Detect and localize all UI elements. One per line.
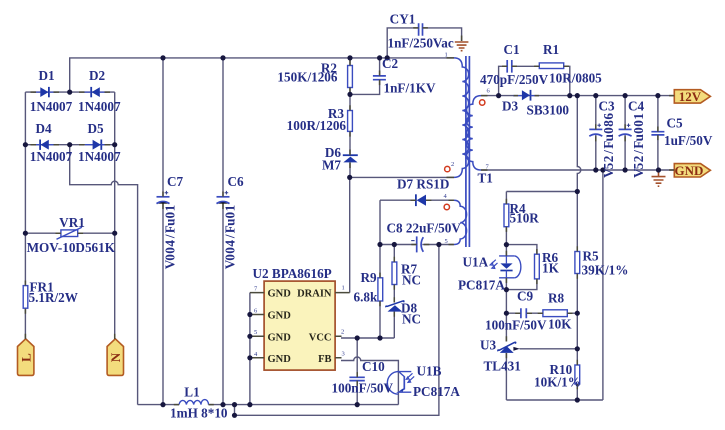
capacitor C4 [619, 124, 632, 137]
node sub-rail junction [232, 413, 237, 418]
fusible resistor FR1 [23, 286, 28, 309]
svg-text:1: 1 [631, 113, 646, 120]
svg-text:100R/1206: 100R/1206 [287, 118, 347, 133]
svg-text:2: 2 [341, 329, 344, 336]
diode D3 [513, 90, 539, 101]
svg-text:/: / [223, 234, 238, 239]
wire bridge right column [114, 92, 116, 145]
svg-text:C10: C10 [362, 359, 385, 374]
svg-text:2: 2 [601, 155, 616, 162]
svg-text:1: 1 [223, 205, 238, 212]
polarity dot primary [445, 166, 450, 171]
capacitor C10 [349, 377, 364, 380]
svg-text:1N4007: 1N4007 [78, 99, 121, 114]
diode D2 [84, 87, 107, 97]
value 10uF/400V (C7) vertical [163, 205, 178, 269]
svg-text:C3: C3 [599, 99, 616, 114]
inductor L1 [179, 400, 208, 405]
svg-text:U1A: U1A [463, 255, 489, 270]
svg-text:TL431: TL431 [484, 359, 521, 374]
svg-text:V: V [223, 259, 238, 269]
svg-text:/: / [631, 150, 646, 155]
diode D6 [343, 155, 358, 162]
svg-text:0: 0 [631, 127, 646, 134]
capacitor C5 [651, 132, 664, 135]
wire R2/C2 bottom junction [350, 58, 380, 95]
svg-text:5: 5 [445, 238, 448, 245]
transformer T1 primary winding [454, 58, 469, 177]
diode D1 [33, 87, 56, 97]
svg-text:1N4007: 1N4007 [78, 149, 121, 164]
svg-text:39K/1%: 39K/1% [582, 263, 629, 278]
capacitor C3 [589, 124, 602, 137]
svg-text:GND: GND [268, 354, 292, 365]
svg-text:D4: D4 [35, 121, 52, 136]
resistor R10 [575, 365, 580, 384]
svg-text:1nF/250Vac: 1nF/250Vac [388, 36, 454, 51]
svg-text:U3: U3 [480, 338, 497, 353]
U2 pin stubs [250, 293, 350, 358]
svg-text:u: u [223, 219, 238, 226]
svg-text:2: 2 [451, 161, 454, 168]
svg-text:C1: C1 [504, 42, 520, 57]
node R2/C2 junction [347, 92, 352, 97]
svg-text:6.8k: 6.8k [354, 290, 378, 305]
wire R2-R3-D6 column [349, 58, 351, 177]
wire C7 column [162, 58, 164, 405]
ground (output earth) [652, 170, 666, 186]
node DRAIN/D6/primary junction [347, 175, 352, 180]
svg-text:T1: T1 [478, 171, 493, 186]
svg-text:u: u [601, 134, 616, 141]
node C8 wire taps [377, 242, 382, 247]
svg-text:PC817A: PC817A [413, 384, 460, 399]
svg-text:F: F [631, 141, 646, 149]
wire N input column to N terminal [114, 145, 116, 341]
wire R5 column with hop over GND rail [577, 96, 581, 400]
wire TL431 ref [520, 348, 578, 350]
svg-text:0: 0 [223, 247, 238, 254]
svg-text:MOV-10D561K: MOV-10D561K [27, 240, 116, 255]
svg-text:PC817A: PC817A [458, 278, 505, 293]
svg-text:D3: D3 [502, 99, 519, 114]
terminal N [107, 339, 123, 376]
svg-text:VR1: VR1 [59, 215, 85, 230]
svg-text:10K/1%: 10K/1% [534, 375, 581, 390]
svg-text:C6: C6 [228, 174, 245, 189]
node GND rail taps [593, 167, 598, 172]
wire feedback bottom [506, 399, 603, 401]
terminal L [18, 339, 34, 376]
wire U2 GND bus [249, 293, 251, 405]
wire VCC net [341, 337, 394, 339]
capacitor C9 [521, 308, 526, 318]
svg-text:FB: FB [318, 354, 331, 365]
node VR1 taps [23, 231, 28, 236]
svg-text:1uF/50V: 1uF/50V [664, 133, 713, 148]
polarity dot secondary [480, 100, 485, 105]
svg-text:N: N [108, 352, 123, 362]
wire R4/U1A/TL431 column [505, 192, 507, 401]
svg-text:u: u [163, 219, 178, 226]
value 100uF/25V (C4) vertical [631, 113, 646, 178]
svg-text:100nF/50V: 100nF/50V [332, 381, 394, 396]
svg-text:100nF/50V: 100nF/50V [485, 318, 547, 333]
node top rail taps [160, 55, 165, 60]
svg-text:2: 2 [631, 155, 646, 162]
svg-text:C7: C7 [167, 174, 184, 189]
svg-text:M7: M7 [322, 158, 341, 173]
svg-text:F: F [223, 225, 238, 233]
svg-text:F: F [601, 141, 616, 149]
terminal GND [674, 163, 710, 178]
svg-text:SB3100: SB3100 [527, 103, 570, 118]
node U2 GND bus taps [247, 312, 252, 317]
svg-text:VCC: VCC [309, 332, 332, 343]
wire B- return: bridge bottom mid, down, right with hop over N column, down to bottom rail [70, 145, 138, 405]
svg-text:12V: 12V [679, 89, 702, 104]
svg-text:C5: C5 [667, 116, 684, 131]
svg-text:8: 8 [601, 120, 616, 127]
wire DRAIN net: column and horizontal to transformer primary bottom [350, 177, 454, 292]
svg-text:10R/0805: 10R/0805 [549, 71, 602, 86]
value 10uF/400V (C6) vertical [223, 205, 238, 269]
wire R9 column [379, 245, 381, 339]
svg-text:V: V [163, 259, 178, 269]
resistor R9 [378, 278, 383, 301]
svg-text:0: 0 [223, 211, 238, 218]
svg-text:D1: D1 [38, 68, 54, 83]
svg-text:C2: C2 [382, 56, 399, 71]
svg-text:510R: 510R [510, 211, 540, 226]
svg-text:1N4007: 1N4007 [30, 99, 73, 114]
wire L input column through FR1 to L terminal [24, 145, 26, 341]
wire bridge top row [25, 91, 114, 93]
svg-text:GND: GND [268, 289, 292, 300]
svg-text:F: F [163, 225, 178, 233]
svg-text:0: 0 [631, 120, 646, 127]
node bottom rail taps [160, 402, 165, 407]
svg-text:3: 3 [342, 351, 345, 358]
resistor R7 [392, 262, 397, 285]
svg-text:/: / [601, 150, 616, 155]
svg-text:0: 0 [601, 127, 616, 134]
svg-text:0: 0 [223, 254, 238, 261]
wire D7 anode column [379, 200, 381, 244]
wire C6 column [222, 58, 224, 405]
resistor R5 [575, 252, 580, 274]
svg-text:5.1R/2W: 5.1R/2W [29, 290, 78, 305]
wire primary GND bottom rail with L1 gap [138, 404, 399, 406]
resistor R3 [348, 111, 353, 132]
wire C4 column [624, 96, 626, 170]
wire bridge bottom row [25, 144, 114, 146]
svg-text:5: 5 [601, 162, 616, 169]
resistor R8 [543, 310, 567, 317]
svg-text:C4: C4 [628, 99, 645, 114]
zener diode D8 [386, 301, 404, 312]
svg-text:1K: 1K [542, 261, 560, 276]
svg-text:0: 0 [163, 254, 178, 261]
terminal 12V [674, 89, 710, 104]
svg-text:CY1: CY1 [390, 12, 416, 27]
svg-text:D5: D5 [87, 121, 104, 136]
pin stubs (dark component leads) [25, 28, 674, 405]
node divider taps [575, 311, 580, 316]
wire snubber loop C1/R1 [499, 66, 570, 95]
svg-text:5: 5 [254, 329, 257, 336]
capacitor C1 [507, 60, 512, 73]
wire C5 column [657, 96, 659, 170]
capacitor CY1 [419, 23, 423, 36]
wire bridge left column [24, 92, 26, 145]
svg-text:1nF/1KV: 1nF/1KV [384, 81, 436, 96]
polarity dot auxiliary [444, 204, 449, 209]
wire R7-D8 column [393, 245, 395, 339]
transformer T1 secondary winding [467, 96, 481, 170]
svg-text:0: 0 [163, 211, 178, 218]
capacitor C8 [411, 236, 423, 252]
node VCC wire taps [355, 335, 360, 340]
wire FB net with hop over C10 [341, 357, 398, 405]
diode D5 [85, 140, 109, 150]
svg-text:R5: R5 [583, 249, 600, 264]
value 680uF/25V (C3) vertical [601, 113, 616, 178]
node 12V rail taps [496, 93, 501, 98]
svg-text:L: L [18, 353, 33, 362]
wire secondary bottom GND rail [481, 169, 674, 171]
svg-text:U1B: U1B [417, 364, 442, 379]
svg-text:GND: GND [268, 332, 292, 343]
svg-text:R1: R1 [543, 42, 559, 57]
transformer T1 auxiliary winding [454, 200, 467, 244]
shunt regulator U3 TL431 [498, 342, 520, 353]
svg-text:1mH 8*10: 1mH 8*10 [170, 406, 228, 421]
svg-text:1: 1 [163, 205, 178, 212]
svg-text:150K/1206: 150K/1206 [277, 70, 337, 85]
diode D7 [416, 194, 426, 206]
svg-text:6: 6 [601, 113, 616, 120]
svg-text:GND: GND [675, 163, 704, 178]
transformer T1 core [466, 56, 470, 247]
svg-text:GND: GND [268, 311, 292, 322]
svg-text:V: V [601, 168, 616, 178]
svg-text:10K: 10K [548, 317, 572, 332]
wire secondary top 12V rail [481, 95, 674, 97]
svg-text:1: 1 [445, 52, 448, 59]
wire VR1 horizontal [25, 232, 114, 234]
wire sub-rail (wire B) to opto/aux ground column [235, 245, 439, 416]
wire R6 parallel loop [506, 245, 537, 290]
opto-transistor U1B [387, 372, 414, 395]
capacitor C7 [157, 191, 170, 204]
svg-text:/: / [163, 234, 178, 239]
wire sub-rail drop at x=234.5 [234, 405, 236, 416]
svg-text:V: V [631, 168, 646, 178]
wire C3 column [595, 96, 597, 170]
opto-LED U1A [490, 256, 521, 278]
wire R4 branch horizontal [506, 191, 577, 193]
svg-text:R8: R8 [548, 291, 565, 306]
capacitor C2 [373, 76, 386, 80]
svg-text:R9: R9 [361, 270, 378, 285]
svg-text:D2: D2 [89, 68, 106, 83]
node bridge junctions [67, 90, 72, 95]
svg-text:NC: NC [402, 312, 421, 327]
svg-text:NC: NC [402, 273, 421, 288]
svg-text:C9: C9 [517, 289, 534, 304]
svg-text:DRAIN: DRAIN [297, 289, 332, 300]
wire C10 column [356, 338, 358, 405]
node R4 branch tap [575, 189, 580, 194]
wire D7 aux top [380, 199, 454, 201]
svg-text:U2 BPA8616P: U2 BPA8616P [253, 266, 332, 281]
wire C8 aux bottom [380, 244, 454, 246]
svg-text:4: 4 [223, 240, 238, 247]
varistor VR1 [57, 227, 82, 239]
wire B+ top rail from bridge to transformer primary top [70, 58, 454, 92]
resistor R6 [535, 254, 540, 279]
svg-text:1: 1 [342, 285, 345, 292]
svg-text:D7 RS1D: D7 RS1D [397, 177, 449, 192]
resistor R1 [539, 63, 563, 69]
wire GND sense column [602, 170, 604, 400]
svg-text:470pF/250V: 470pF/250V [480, 72, 549, 87]
svg-text:L1: L1 [184, 385, 199, 400]
IC U2 BPA8616P body [264, 281, 335, 370]
resistor R2 [348, 66, 353, 88]
svg-text:u: u [631, 134, 646, 141]
svg-text:5: 5 [631, 162, 646, 169]
capacitor C6 [217, 191, 230, 204]
resistor R4 [504, 204, 509, 227]
diode D4 [33, 140, 56, 150]
wire C9/R8 branch [506, 312, 577, 314]
wire CY1 branch [387, 28, 461, 58]
svg-text:C8 22uF/50V: C8 22uF/50V [387, 221, 462, 236]
svg-text:1N4007: 1N4007 [30, 149, 73, 164]
svg-text:4: 4 [163, 240, 178, 247]
ground (CY1 earth, secondary side) [455, 42, 469, 51]
node U1A LED taps [504, 242, 509, 247]
svg-text:0: 0 [163, 247, 178, 254]
